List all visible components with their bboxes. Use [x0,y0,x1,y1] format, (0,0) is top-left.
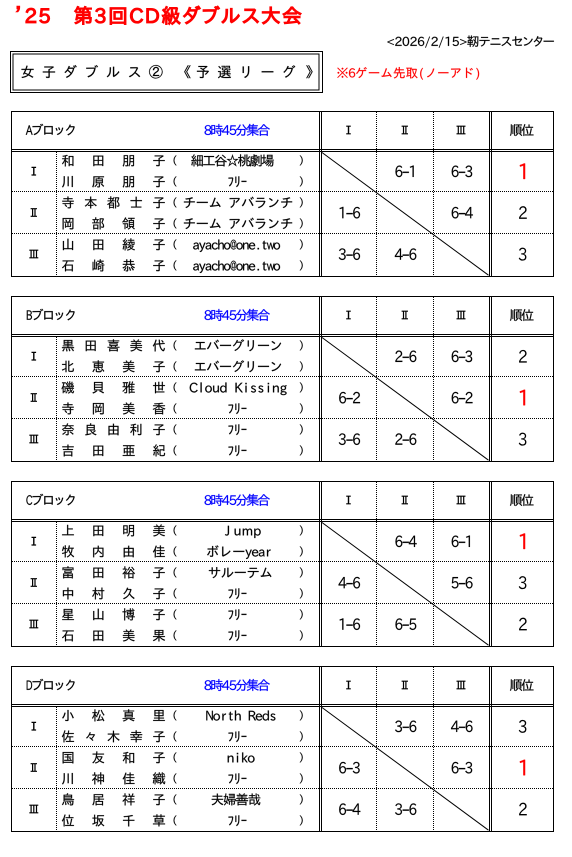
table D row 1 rank 3 [519,720,527,733]
table B header texts [27,310,32,319]
table B dotted grid [12,297,553,461]
table D row 1 label [31,722,36,731]
table D row 2 rank 1 [520,760,525,776]
table A row 3 scores [339,248,346,260]
table B row 3 pair line 1: 奈良由利子 (ﾌﾘｰ) [62,423,74,435]
table B row 1 scores [395,351,402,362]
table C row 3 scores [340,618,344,629]
table D row 2 pair line 1: 国友和子 (niko) [63,752,74,763]
table B row 1 rank 2 [519,350,527,363]
table A row 3 pair line 2: 石崎恭子 (ayacho@one.two) [62,260,74,271]
table A row 2 pair line 1: 寺本都士子 (チーム アバランチ) [62,197,74,209]
table D frame [12,667,554,832]
table C row 1 scores [395,536,402,548]
table A row 2 rank 2 [519,206,527,219]
table C row 1 pair line 2: 牧内由佳 (ボレーyear) [62,545,74,557]
table D header texts [27,680,32,689]
table C diagonal [322,523,489,646]
table B row 3 pair line 2: 吉田亜紀 (ﾌﾘｰ) [62,445,73,457]
table B frame [12,297,554,462]
table C row 2 rank 3 [519,576,527,589]
table D row 3 pair line 1: 鳥居祥子 (夫婦善哉) [62,793,74,805]
table B diagonal [322,338,489,461]
table A row 3 rank 3 [519,248,527,261]
table C row 2 pair line 1: 富田裕子 (サルーテム) [63,566,74,578]
table D diagonal [322,708,489,831]
table D row 2 pair line 2: 川神佳織 (ﾌﾘｰ) [62,773,73,784]
table C row 3 pair line 2: 石田美果 (ﾌﾘｰ) [62,630,74,641]
table B row 2 rank 1 [520,390,525,406]
venue/date line [387,39,394,45]
table C row 2 label [31,578,37,587]
table D row 1 pair line 2: 佐々木幸子 (ﾌﾘｰ) [62,730,74,742]
table B row 2 pair line 2: 寺岡美香 (ﾌﾘｰ) [62,403,74,415]
table B row 3 rank 3 [519,433,527,446]
table B row 2 scores [339,392,346,404]
table C row 2 pair line 2: 中村久子 (ﾌﾘｰ) [63,588,73,600]
table D row 3 rank 2 [519,803,527,816]
table A row 2 label [31,208,37,217]
table D row 3 pair line 2: 位坂千草 (ﾌﾘｰ) [62,815,74,827]
table C row 1 pair line 1: 上田明美 (Jump) [62,525,74,535]
table C row 3 pair line 1: 星山博子 (ﾌﾘｰ) [62,609,74,620]
table D row 2 label [31,763,37,772]
table B row 3 label [29,435,38,444]
table A row 2 pair line 2: 岡部領子 (チーム アバランチ) [63,218,74,229]
table B row 2 label [31,393,37,402]
table B row 1 pair line 1: 黒田喜美代 (エバーグリーン) [62,340,74,352]
subtitle double box [11,52,323,93]
table A header texts [26,125,33,134]
table C frame [12,482,554,647]
table A dotted grid [12,112,553,276]
page title [17,6,20,11]
table C row 1 rank 1 [520,533,525,549]
table C row 3 rank 2 [519,618,527,631]
table C dotted grid [12,482,553,646]
red rule note [337,68,347,78]
table A row 1 pair line 1: 和田朋子 (細工谷☆桃劇場) [62,155,73,167]
table C header texts [26,495,32,505]
table B row 1 pair line 2: 北恵美子 (エバーグリーン) [62,361,74,372]
table C row 3 label [29,620,38,629]
table D row 3 label [29,805,38,814]
table D dotted grid [12,667,553,831]
table A row 1 label [31,167,36,176]
table D row 1 pair line 1: 小松真里 (North Reds) [62,710,74,721]
subtitle text [21,66,33,78]
table B row 1 label [31,352,36,361]
table B row 3 scores [339,433,346,445]
table A row 1 scores [395,166,402,178]
table A row 2 scores [340,207,344,218]
table A row 1 pair line 2: 川原朋子 (ﾌﾘｰ) [62,176,73,187]
table D row 3 scores [339,803,346,815]
table D row 2 scores [339,762,346,774]
table C row 2 scores [339,577,347,588]
table A row 3 pair line 1: 山田綾子 (ayacho@one.two) [63,239,73,250]
table A row 3 label [29,250,38,259]
table A diagonal [322,153,489,276]
table A row 1 rank 1 [520,163,525,179]
table B row 2 pair line 1: 磯貝雅世 (Cloud Kissing) [62,381,74,393]
table D row 1 scores [395,721,402,733]
table C row 1 label [31,537,36,546]
table A frame [12,112,554,277]
